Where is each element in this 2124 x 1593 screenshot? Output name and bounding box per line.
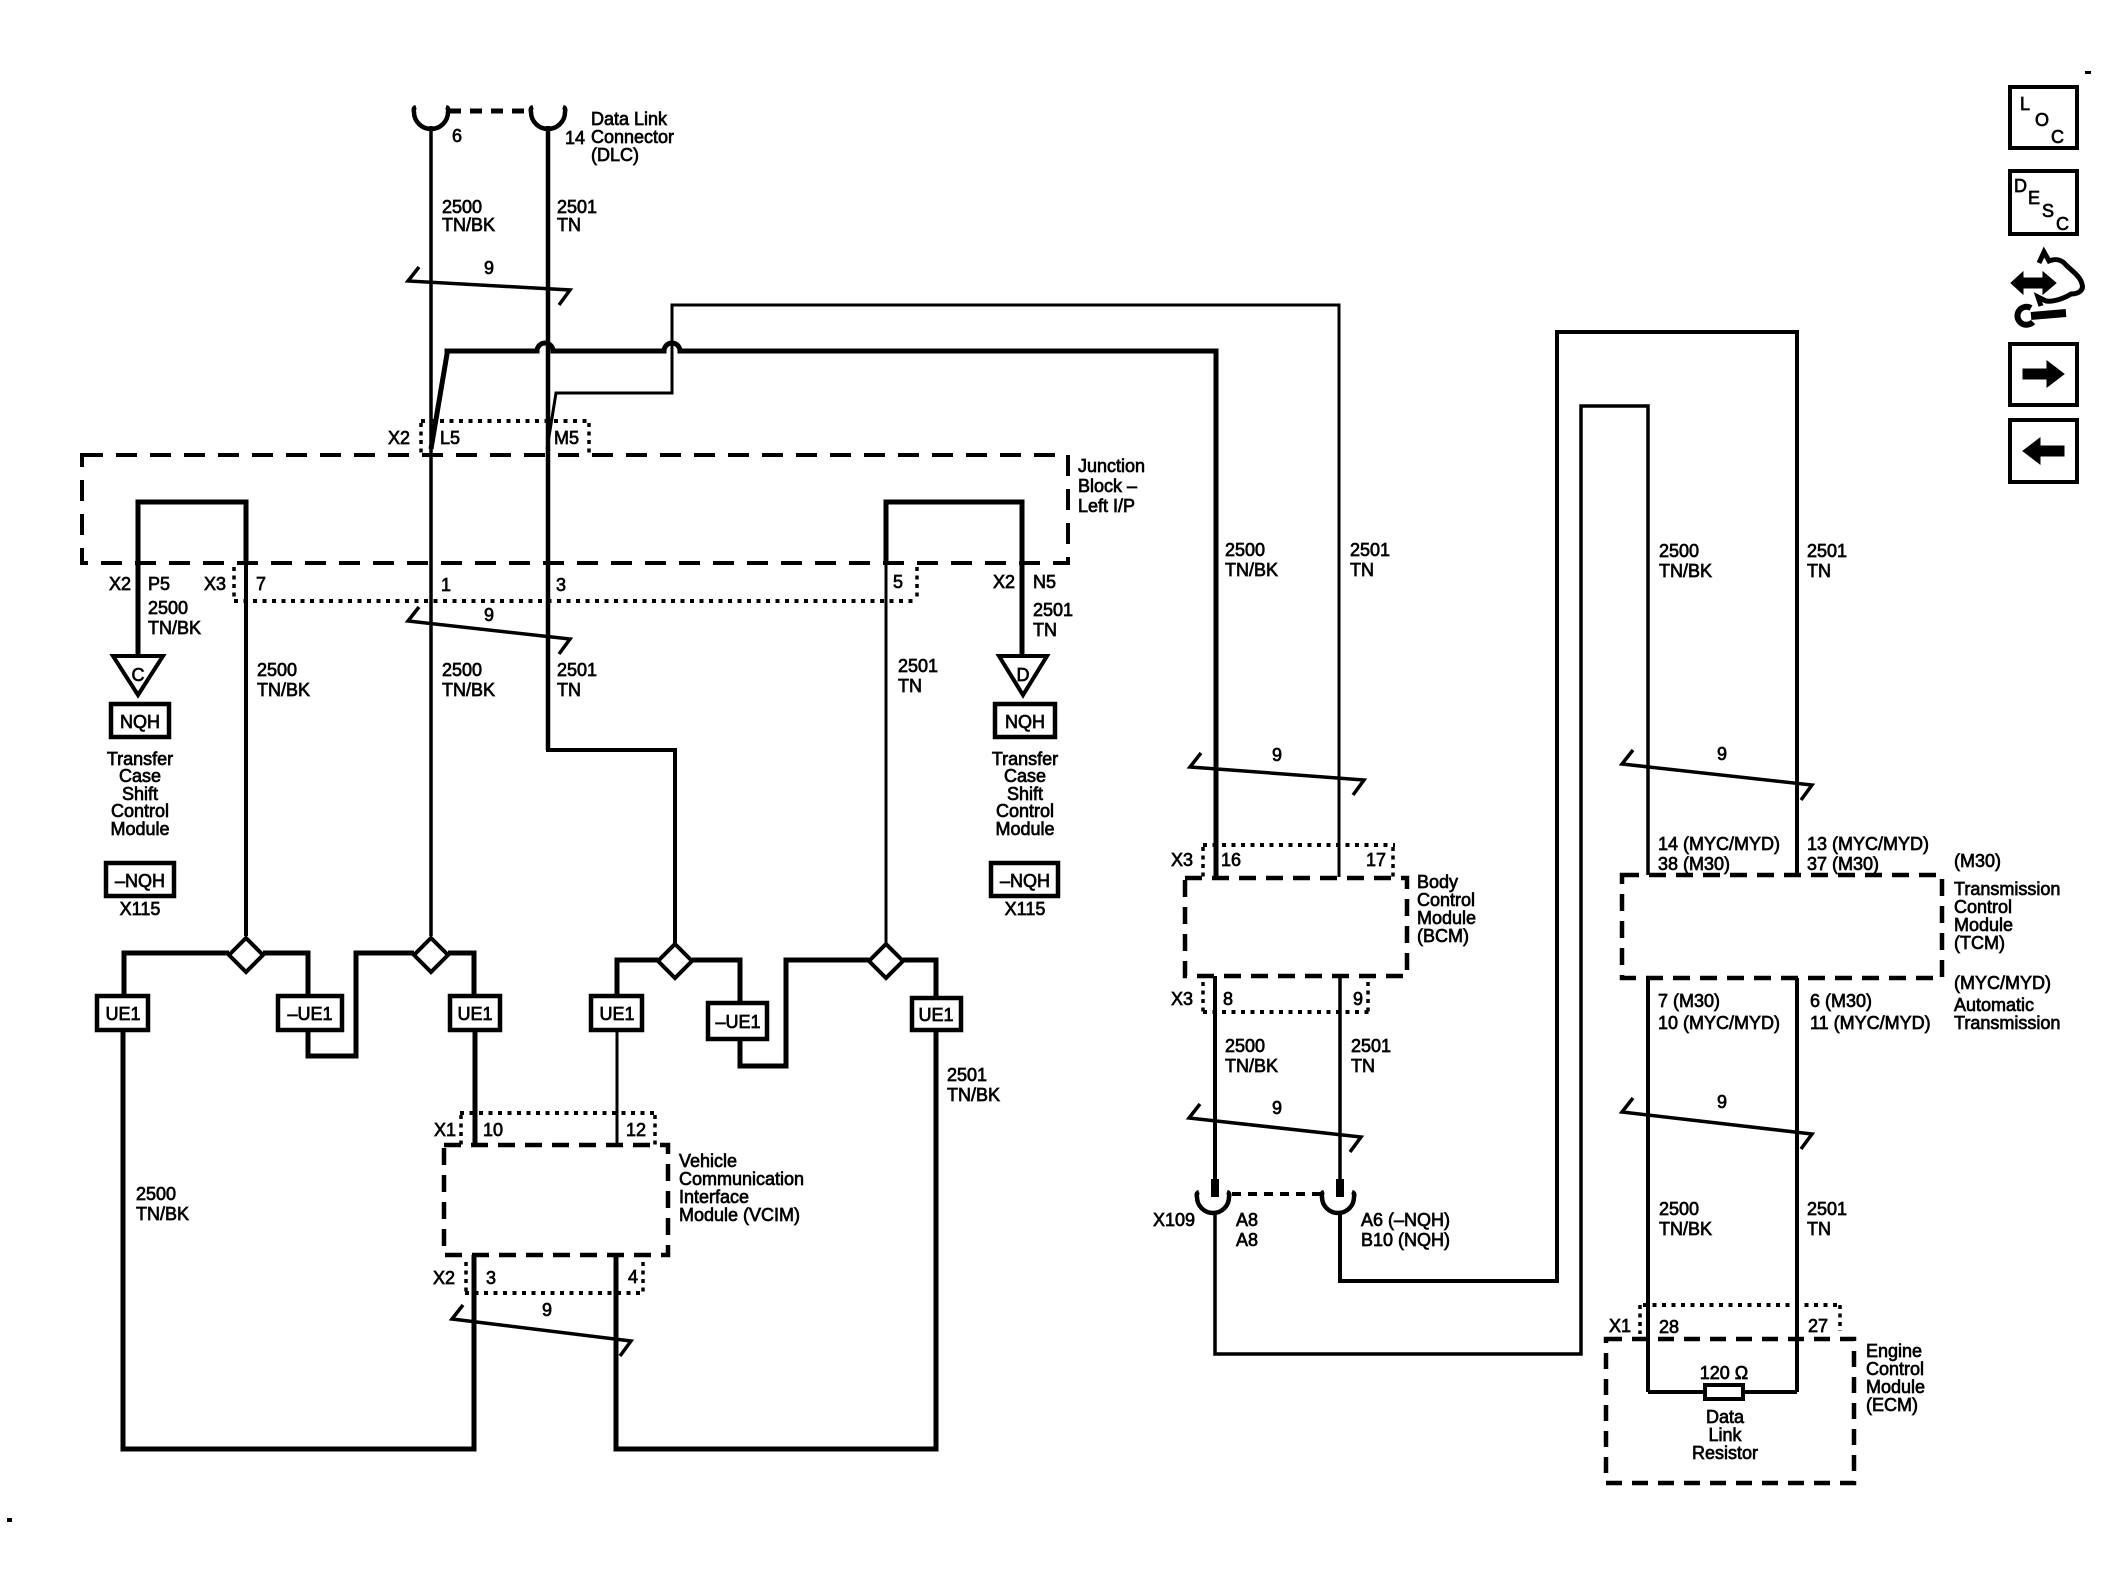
svg-text:Resistor: Resistor	[1692, 1443, 1758, 1463]
svg-text:S: S	[2042, 201, 2054, 221]
svg-text:–UE1: –UE1	[287, 1004, 332, 1024]
svg-text:2501: 2501	[1807, 541, 1847, 561]
svg-text:Control: Control	[996, 801, 1054, 821]
svg-text:TN/BK: TN/BK	[1225, 560, 1278, 580]
svg-text:E: E	[2028, 188, 2040, 208]
svg-text:Automatic: Automatic	[1954, 995, 2034, 1015]
svg-text:TN/BK: TN/BK	[1225, 1056, 1278, 1076]
wire 2501 TN/BK right loop UE1 (d) to VCIM X2-4	[616, 1030, 936, 1449]
twisted pair marker 9 (below TCM)	[1622, 1098, 1812, 1149]
svg-text:Case: Case	[1004, 766, 1046, 786]
inline connector -UE1 box (a)	[278, 996, 342, 1030]
svg-text:X3: X3	[1171, 850, 1193, 870]
svg-text:6: 6	[452, 126, 462, 146]
svg-text:P5: P5	[148, 574, 170, 594]
svg-text:Control: Control	[1417, 890, 1475, 910]
svg-text:Communication: Communication	[679, 1169, 804, 1189]
wire splice S3 to -UE1 (b)	[692, 960, 740, 1003]
svg-text:TN/BK: TN/BK	[136, 1204, 189, 1224]
svg-text:Module: Module	[110, 819, 169, 839]
svg-text:3: 3	[556, 575, 566, 595]
svg-text:TN: TN	[1807, 561, 1831, 581]
wire 2500 TN/BK X2-P5 stub	[136, 563, 141, 656]
svg-text:9: 9	[484, 258, 494, 278]
svg-text:(TCM): (TCM)	[1954, 933, 2005, 953]
TCM dashed box	[1622, 875, 1942, 978]
DLC connector pin 14 cup	[531, 107, 566, 129]
wire -UE1 (a) jog to splice S2	[308, 953, 414, 1056]
svg-text:14 (MYC/MYD): 14 (MYC/MYD)	[1658, 834, 1780, 854]
svg-text:(M30): (M30)	[1954, 851, 2001, 871]
svg-text:D: D	[2014, 176, 2027, 196]
connector triangle D	[999, 656, 1047, 695]
svg-text:Engine: Engine	[1866, 1341, 1922, 1361]
svg-text:TN/BK: TN/BK	[1659, 1219, 1712, 1239]
X109 male stub A8	[1211, 1179, 1219, 1197]
forward arrow icon box	[2010, 344, 2077, 405]
DESC icon box	[2010, 171, 2077, 234]
svg-text:2500: 2500	[442, 197, 482, 217]
twisted pair marker 9 (above TCM)	[1622, 750, 1812, 800]
twisted pair marker 9 (below VCIM)	[452, 1305, 631, 1356]
svg-text:11 (MYC/MYD): 11 (MYC/MYD)	[1810, 1013, 1931, 1033]
svg-text:X115: X115	[1005, 899, 1046, 919]
svg-text:9: 9	[1717, 744, 1727, 764]
harness code -NQH box (right)	[991, 863, 1058, 896]
svg-text:Vehicle: Vehicle	[679, 1151, 737, 1171]
svg-text:3: 3	[486, 1268, 496, 1288]
svg-text:NQH: NQH	[120, 712, 160, 732]
wire 2501 TN BCM X3-9 to X109	[1338, 976, 1342, 1180]
splice diamond S3	[658, 944, 692, 978]
svg-text:37 (M30): 37 (M30)	[1807, 854, 1879, 874]
svg-text:TN: TN	[898, 676, 922, 696]
inline connector -UE1 box (b)	[708, 1003, 767, 1039]
svg-text:8: 8	[1223, 989, 1233, 1009]
connector triangle C	[113, 656, 163, 695]
wire 2501 TN X109 to TCM pin 13 (outer loop)	[1340, 332, 1797, 1281]
svg-text:14: 14	[565, 128, 585, 148]
svg-text:D: D	[1017, 665, 1030, 685]
svg-text:Connector: Connector	[591, 127, 674, 147]
svg-text:UE1: UE1	[599, 1004, 634, 1024]
svg-text:7: 7	[256, 574, 266, 594]
svg-text:TN/BK: TN/BK	[442, 215, 495, 235]
svg-text:2501: 2501	[1033, 600, 1073, 620]
svg-text:4: 4	[628, 1267, 638, 1287]
wire 2501 TN from DLC pin 14	[546, 126, 551, 750]
twisted pair marker 9 (above BCM)	[1190, 753, 1364, 795]
svg-text:9: 9	[1272, 1098, 1282, 1118]
svg-text:Link: Link	[1708, 1425, 1742, 1445]
svg-text:TN: TN	[1033, 620, 1057, 640]
svg-text:X2: X2	[388, 428, 410, 448]
svg-text:–NQH: –NQH	[1000, 871, 1050, 891]
junction block internal jumper 5 to N5	[886, 502, 1022, 563]
svg-text:C: C	[2056, 214, 2069, 234]
inline connector UE1 box (d)	[912, 998, 961, 1030]
svg-text:7 (M30): 7 (M30)	[1658, 991, 1720, 1011]
svg-text:120 Ω: 120 Ω	[1700, 1363, 1749, 1383]
svg-text:2500: 2500	[1225, 1036, 1265, 1056]
svg-text:(BCM): (BCM)	[1417, 926, 1469, 946]
wire 2500 TN/BK TCM to ECM	[1646, 978, 1650, 1392]
svg-text:Module (VCIM): Module (VCIM)	[679, 1205, 800, 1225]
splice diamond S1	[229, 938, 263, 972]
svg-text:A6 (–NQH): A6 (–NQH)	[1361, 1210, 1450, 1230]
VCIM dashed box	[444, 1145, 668, 1255]
svg-text:13 (MYC/MYD): 13 (MYC/MYD)	[1807, 834, 1929, 854]
svg-text:2501: 2501	[947, 1065, 987, 1085]
svg-text:TN/BK: TN/BK	[257, 680, 310, 700]
stray scan mark top right	[2085, 71, 2091, 74]
wire 2500 TN/BK X3-7 to splice	[244, 563, 248, 936]
svg-text:27: 27	[1808, 1316, 1828, 1336]
svg-text:Module: Module	[995, 819, 1054, 839]
wire 2501 TN pin3 jog to splice column	[546, 748, 675, 944]
svg-text:Data Link: Data Link	[591, 109, 668, 129]
svg-text:Control: Control	[1954, 897, 2012, 917]
svg-text:TN/BK: TN/BK	[947, 1085, 1000, 1105]
svg-text:9: 9	[1717, 1092, 1727, 1112]
svg-text:(ECM): (ECM)	[1866, 1395, 1918, 1415]
svg-text:9: 9	[1272, 745, 1282, 765]
wire 2500 TN/BK BCM X3-8 to X109	[1213, 976, 1217, 1180]
svg-text:TN/BK: TN/BK	[1659, 561, 1712, 581]
svg-text:Interface: Interface	[679, 1187, 749, 1207]
svg-text:2500: 2500	[1659, 541, 1699, 561]
X109 female cup A6	[1322, 1192, 1355, 1213]
ECM X1 pin row	[1643, 1303, 1838, 1307]
svg-text:Transmission: Transmission	[1954, 1013, 2060, 1033]
wire UE1 (b) to VCIM X1-10	[473, 1030, 478, 1146]
DLC connector dashed link	[449, 109, 532, 114]
svg-text:–NQH: –NQH	[115, 871, 165, 891]
svg-text:X1: X1	[1609, 1316, 1631, 1336]
svg-text:(DLC): (DLC)	[591, 145, 639, 165]
vehicle data icon wrench	[2017, 307, 2033, 325]
svg-text:Junction: Junction	[1078, 456, 1145, 476]
svg-text:2500: 2500	[1659, 1199, 1699, 1219]
svg-text:Module: Module	[1866, 1377, 1925, 1397]
svg-text:Left I/P: Left I/P	[1078, 496, 1135, 516]
wire 2500 TN/BK from DLC pin 6	[429, 126, 433, 936]
svg-text:Control: Control	[111, 801, 169, 821]
svg-text:Data: Data	[1706, 1407, 1745, 1427]
splice diamond S4	[869, 944, 903, 978]
wire UE1 (c) to splice S3	[617, 960, 658, 996]
svg-text:2500: 2500	[148, 598, 188, 618]
svg-text:2501: 2501	[557, 660, 597, 680]
svg-text:X3: X3	[1171, 989, 1193, 1009]
wire 2500 TN/BK branch to BCM pin 16	[431, 343, 1216, 877]
svg-text:A8: A8	[1236, 1210, 1258, 1230]
svg-text:X3: X3	[204, 574, 226, 594]
wire 2500 TN/BK left loop UE1 (a) to VCIM X2-3	[123, 1030, 474, 1449]
svg-text:X2: X2	[109, 574, 131, 594]
harness code NQH box (right)	[995, 704, 1055, 737]
junction block X2 top pin row	[421, 419, 589, 423]
wire splice S1 to -UE1 (a)	[263, 953, 308, 996]
svg-text:Transmission: Transmission	[1954, 879, 2060, 899]
wire splice S1 to UE1 (a)	[124, 953, 229, 996]
svg-text:Control: Control	[1866, 1359, 1924, 1379]
svg-text:(MYC/MYD): (MYC/MYD)	[1954, 973, 2051, 993]
svg-text:2500: 2500	[1225, 540, 1265, 560]
svg-text:X115: X115	[120, 899, 161, 919]
inline connector UE1 box (b)	[450, 996, 500, 1030]
svg-text:2500: 2500	[136, 1184, 176, 1204]
splice diamond S2	[414, 938, 448, 972]
wire UE1 (c) to VCIM X1-12	[616, 1030, 619, 1147]
svg-text:10: 10	[483, 1120, 503, 1140]
svg-text:Module: Module	[1417, 908, 1476, 928]
twisted pair marker 9 (top)	[408, 267, 570, 305]
svg-text:2501: 2501	[1351, 1036, 1391, 1056]
svg-text:L5: L5	[440, 428, 460, 448]
junction block internal jumper P5 to 7	[138, 502, 246, 563]
svg-text:UE1: UE1	[457, 1004, 492, 1024]
svg-text:28: 28	[1659, 1317, 1679, 1337]
svg-text:X1: X1	[434, 1120, 456, 1140]
svg-text:9: 9	[1353, 989, 1363, 1009]
svg-text:2500: 2500	[442, 660, 482, 680]
svg-text:TN: TN	[1807, 1219, 1831, 1239]
wire -UE1 (b) jog to splice S4	[740, 960, 869, 1066]
wire splice S2 to UE1 (b)	[448, 953, 474, 996]
svg-text:UE1: UE1	[918, 1005, 953, 1025]
svg-text:Body: Body	[1417, 872, 1458, 892]
svg-text:2501: 2501	[898, 656, 938, 676]
inline connector UE1 box (c)	[591, 996, 642, 1030]
BCM X3 bottom pin row	[1203, 1010, 1370, 1014]
svg-text:X2: X2	[433, 1268, 455, 1288]
back arrow icon box	[2010, 420, 2077, 482]
svg-text:9: 9	[542, 1300, 552, 1320]
data link resistor element	[1648, 1390, 1797, 1394]
junction block dashed box	[82, 455, 1068, 563]
wire 2500 TN/BK X109 to TCM pin 14 (inner loop)	[1215, 406, 1648, 1354]
svg-text:O: O	[2035, 110, 2049, 130]
svg-text:C: C	[2051, 127, 2064, 147]
vehicle data icon squiggle	[2038, 252, 2082, 306]
BCM dashed box	[1185, 878, 1407, 976]
svg-text:12: 12	[626, 1120, 646, 1140]
harness code NQH box (left)	[111, 704, 169, 737]
svg-text:L: L	[2020, 94, 2030, 114]
svg-text:N5: N5	[1033, 572, 1056, 592]
svg-text:C: C	[132, 665, 145, 685]
svg-text:TN: TN	[1351, 1056, 1375, 1076]
svg-text:9: 9	[484, 605, 494, 625]
svg-text:X109: X109	[1153, 1210, 1195, 1230]
svg-text:TN/BK: TN/BK	[148, 618, 201, 638]
ECM dashed box	[1606, 1339, 1854, 1483]
X109 female cup A8	[1197, 1192, 1230, 1213]
wire 2501 TN TCM to ECM	[1795, 978, 1799, 1392]
svg-text:X2: X2	[993, 572, 1015, 592]
harness code -NQH box (left)	[106, 863, 174, 896]
svg-text:Case: Case	[119, 766, 161, 786]
svg-text:2501: 2501	[1350, 540, 1390, 560]
svg-text:–UE1: –UE1	[715, 1012, 760, 1032]
svg-text:16: 16	[1221, 850, 1241, 870]
wire 2501 TN branch to BCM pin 17	[547, 305, 1339, 877]
svg-text:2501: 2501	[1807, 1199, 1847, 1219]
svg-text:A8: A8	[1236, 1230, 1258, 1250]
svg-text:10 (MYC/MYD): 10 (MYC/MYD)	[1658, 1013, 1780, 1033]
svg-text:17: 17	[1366, 850, 1386, 870]
svg-text:TN: TN	[1350, 560, 1374, 580]
DLC connector pin 6 cup	[414, 107, 449, 129]
twisted pair marker 9 (below junction block)	[408, 607, 570, 654]
wire splice S4 to UE1 (d)	[903, 960, 936, 998]
stray scan mark bottom left	[7, 1518, 12, 1522]
svg-text:1: 1	[441, 575, 451, 595]
svg-text:Module: Module	[1954, 915, 2013, 935]
X109 dashed link	[1232, 1192, 1322, 1196]
BCM X3 top pin row	[1203, 843, 1395, 847]
LOC icon box	[2010, 87, 2077, 148]
svg-text:M5: M5	[554, 428, 579, 448]
svg-text:NQH: NQH	[1005, 712, 1045, 732]
X109 male stub A6	[1336, 1179, 1344, 1197]
svg-text:6 (M30): 6 (M30)	[1810, 991, 1872, 1011]
svg-text:B10 (NQH): B10 (NQH)	[1361, 1230, 1450, 1250]
svg-text:TN/BK: TN/BK	[442, 680, 495, 700]
wire 2501 TN pin 5 to splice	[885, 563, 888, 943]
svg-text:TN: TN	[557, 215, 581, 235]
svg-text:UE1: UE1	[105, 1004, 140, 1024]
twisted pair marker 9 (below BCM)	[1189, 1104, 1361, 1152]
svg-text:Block –: Block –	[1078, 476, 1137, 496]
inline connector UE1 box (a)	[97, 996, 148, 1030]
junction block bottom pin row	[234, 599, 917, 603]
vehicle data icon double arrow	[2011, 272, 2056, 294]
svg-text:38 (M30): 38 (M30)	[1658, 854, 1730, 874]
svg-text:2501: 2501	[557, 197, 597, 217]
wire 2501 TN X2-N5 stub	[1020, 563, 1025, 656]
VCIM X1 pin row	[460, 1111, 657, 1115]
svg-text:5: 5	[893, 572, 903, 592]
svg-text:2500: 2500	[257, 660, 297, 680]
svg-text:TN: TN	[557, 680, 581, 700]
